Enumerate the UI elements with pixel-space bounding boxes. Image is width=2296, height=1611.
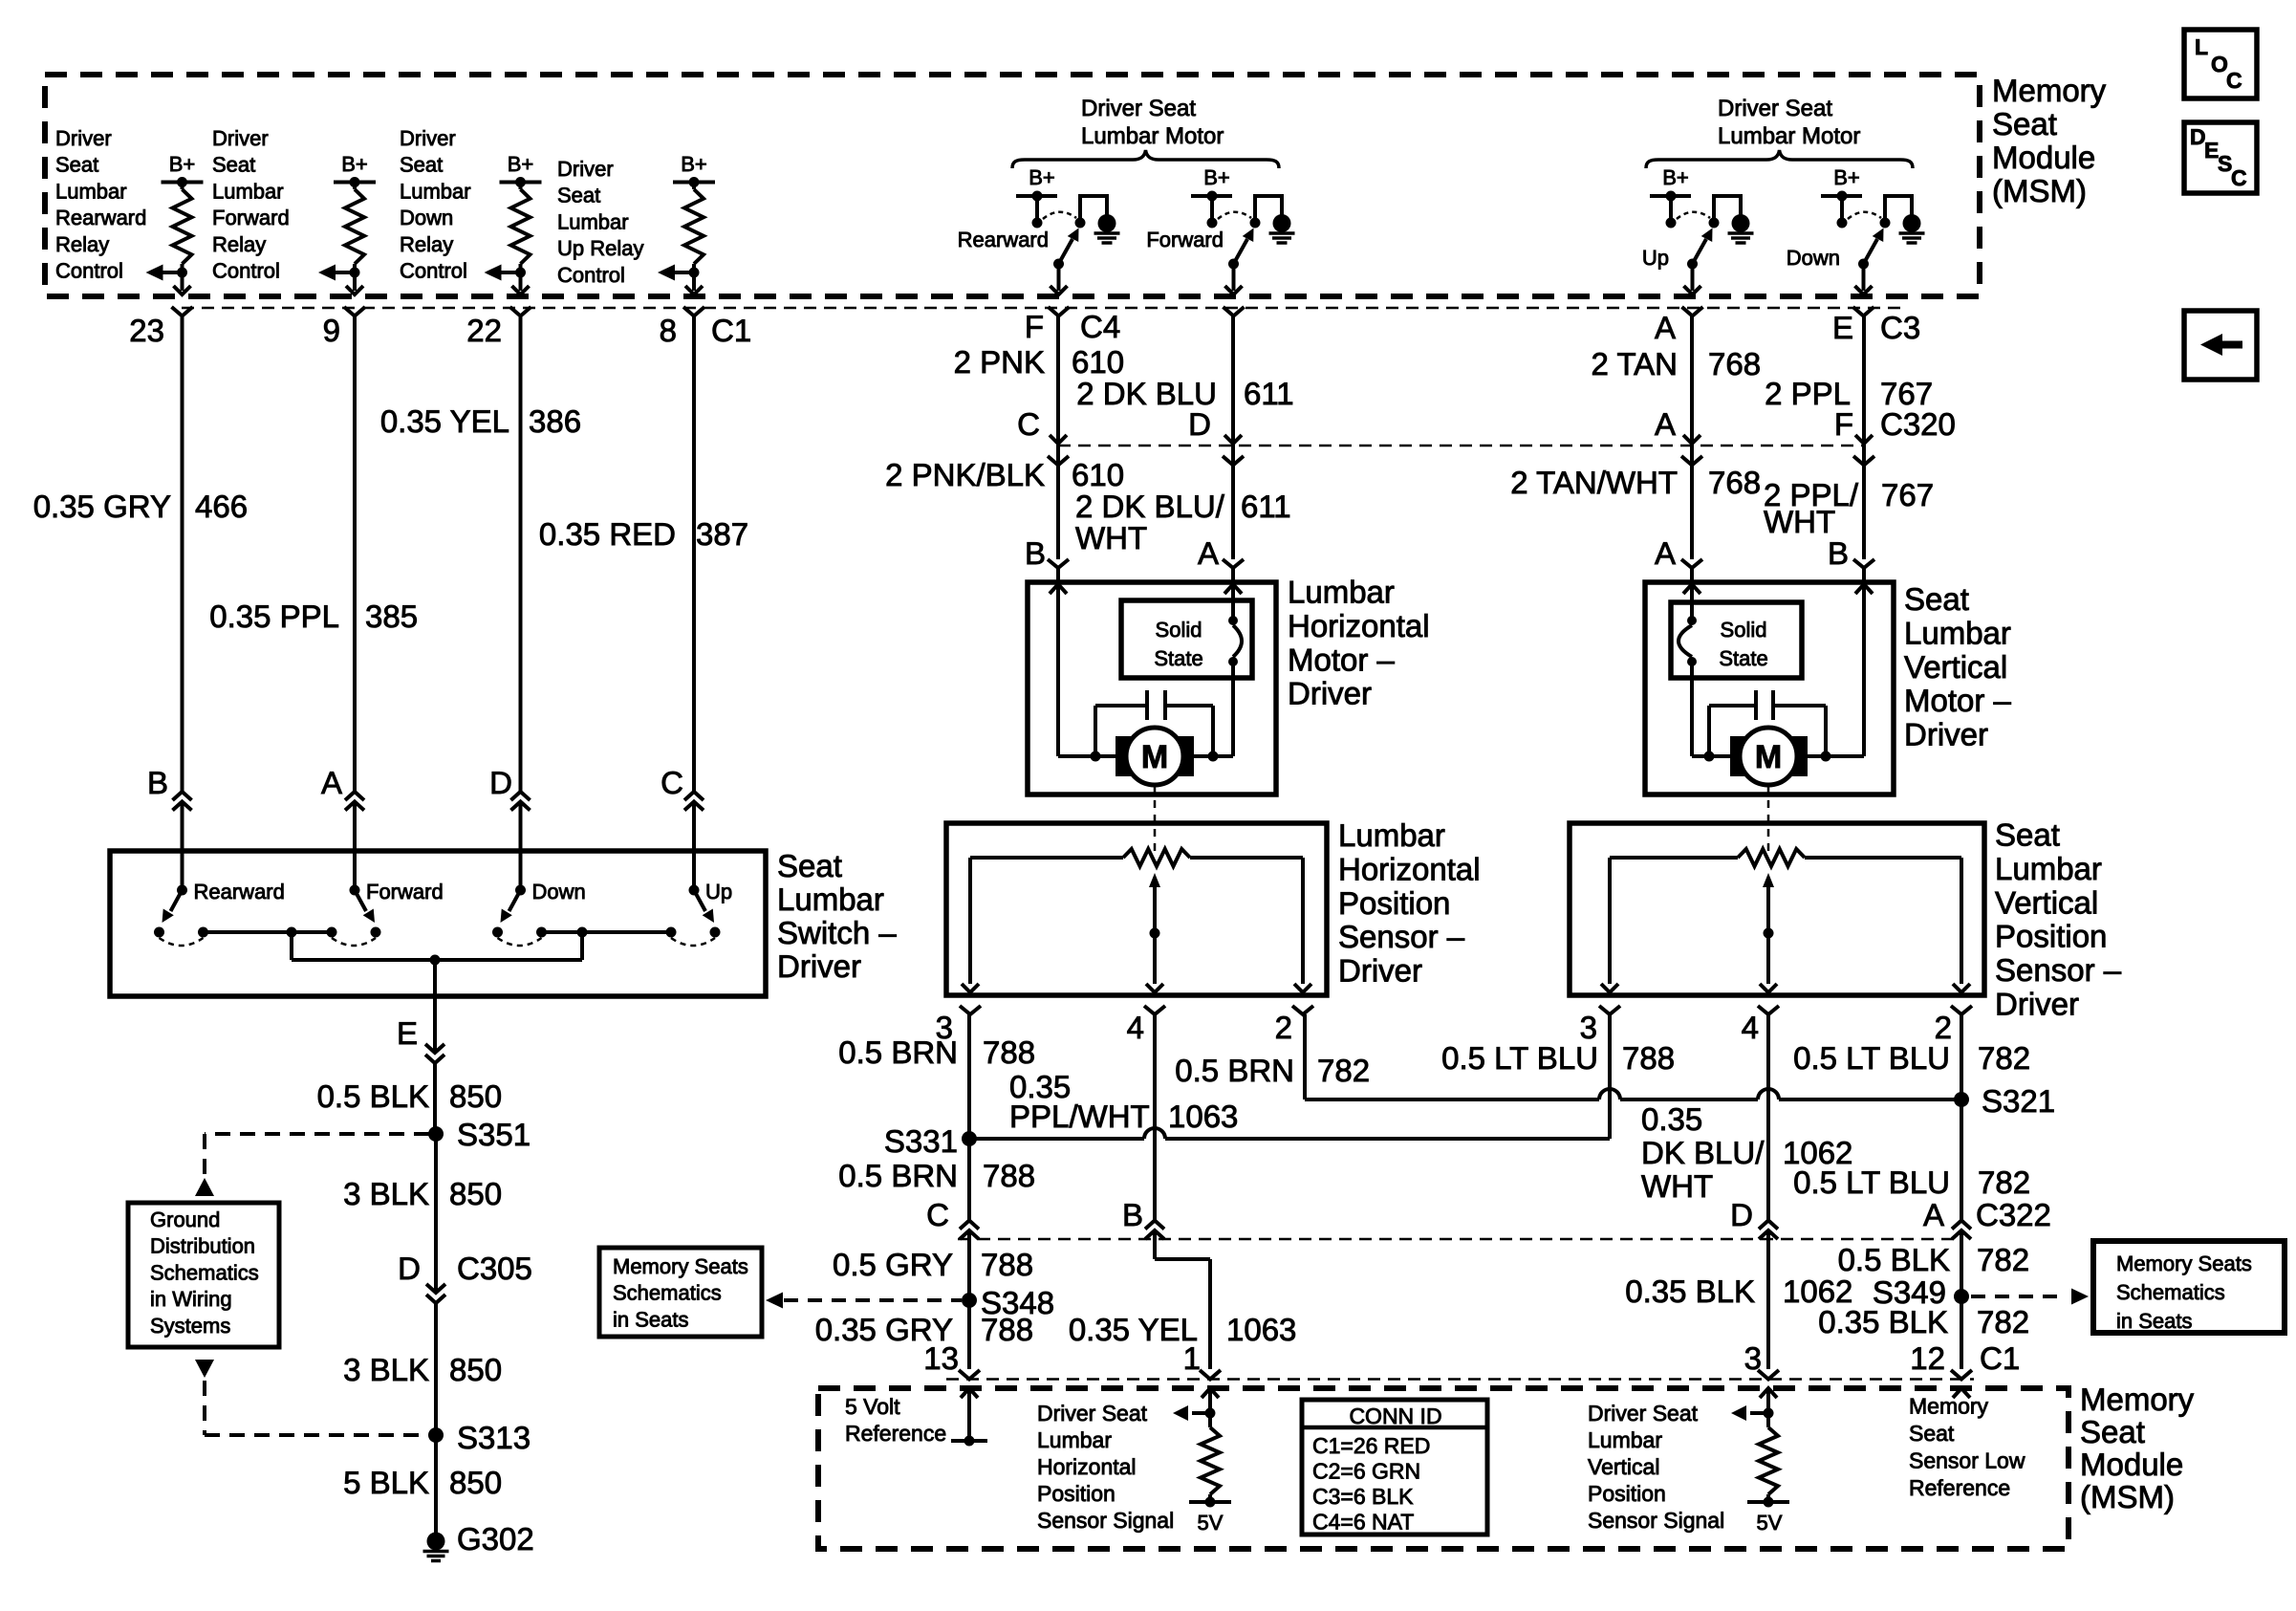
- svg-text:B: B: [147, 765, 168, 800]
- svg-text:Rearward: Rearward: [194, 880, 285, 903]
- svg-text:C2=6 GRN: C2=6 GRN: [1312, 1459, 1420, 1484]
- svg-text:D: D: [489, 765, 512, 800]
- svg-text:Lumbar Motor: Lumbar Motor: [1718, 123, 1860, 149]
- svg-text:(MSM): (MSM): [2080, 1479, 2175, 1514]
- svg-text:788: 788: [1622, 1040, 1675, 1076]
- svg-text:State: State: [1154, 646, 1202, 670]
- svg-text:Position: Position: [1338, 885, 1450, 921]
- svg-text:Seat: Seat: [1904, 581, 1969, 617]
- svg-text:Driver: Driver: [212, 126, 269, 150]
- svg-text:C305: C305: [457, 1251, 532, 1286]
- svg-text:5 BLK: 5 BLK: [343, 1465, 429, 1500]
- svg-text:8: 8: [660, 313, 677, 348]
- svg-text:2: 2: [1275, 1010, 1292, 1045]
- svg-text:C1: C1: [711, 313, 751, 348]
- svg-text:Schematics: Schematics: [613, 1281, 722, 1305]
- svg-text:B+: B+: [1833, 165, 1860, 189]
- svg-text:C4=6 NAT: C4=6 NAT: [1312, 1510, 1414, 1535]
- svg-text:S321: S321: [1982, 1083, 2055, 1119]
- svg-text:Sensor Low: Sensor Low: [1909, 1448, 2025, 1473]
- svg-text:Position: Position: [1995, 919, 2107, 954]
- svg-text:2 TAN/WHT: 2 TAN/WHT: [1510, 465, 1678, 500]
- svg-text:Relay: Relay: [400, 232, 453, 256]
- svg-text:Horizontal: Horizontal: [1338, 851, 1481, 886]
- svg-text:M: M: [1141, 739, 1168, 775]
- svg-text:Lumbar: Lumbar: [1288, 575, 1395, 610]
- svg-text:Forward: Forward: [366, 880, 444, 903]
- svg-text:C: C: [1017, 406, 1040, 442]
- svg-text:850: 850: [449, 1352, 502, 1387]
- svg-text:0.35 RED: 0.35 RED: [539, 516, 676, 552]
- svg-text:0.5 LT BLU: 0.5 LT BLU: [1793, 1165, 1950, 1200]
- svg-text:Relay: Relay: [55, 232, 109, 256]
- svg-text:Down: Down: [400, 206, 453, 229]
- svg-text:F: F: [1025, 309, 1044, 344]
- svg-text:2 PNK: 2 PNK: [954, 344, 1045, 380]
- svg-text:C4: C4: [1080, 309, 1120, 344]
- svg-text:Up Relay: Up Relay: [557, 236, 643, 260]
- svg-text:610: 610: [1072, 344, 1124, 380]
- svg-text:D: D: [398, 1251, 421, 1286]
- svg-text:Seat: Seat: [2080, 1414, 2145, 1449]
- svg-text:C3: C3: [1880, 310, 1920, 345]
- svg-text:0.5 BRN: 0.5 BRN: [838, 1158, 958, 1193]
- svg-text:Sensor –: Sensor –: [1338, 919, 1465, 954]
- svg-text:M: M: [1755, 739, 1782, 775]
- svg-text:Motor –: Motor –: [1288, 642, 1396, 677]
- svg-text:Lumbar: Lumbar: [777, 882, 884, 917]
- svg-text:A: A: [321, 765, 342, 800]
- svg-text:Driver: Driver: [557, 157, 614, 181]
- svg-text:Driver: Driver: [1288, 676, 1372, 711]
- svg-text:C3=6 BLK: C3=6 BLK: [1312, 1484, 1414, 1509]
- svg-text:Driver Seat: Driver Seat: [1718, 96, 1832, 121]
- svg-text:5 Volt: 5 Volt: [845, 1394, 900, 1419]
- svg-text:Seat: Seat: [1992, 106, 2057, 142]
- svg-text:B+: B+: [1203, 165, 1230, 189]
- svg-text:Motor –: Motor –: [1904, 683, 2012, 718]
- svg-text:Lumbar Motor: Lumbar Motor: [1081, 123, 1224, 149]
- svg-text:0.35 PPL: 0.35 PPL: [209, 599, 339, 634]
- svg-text:387: 387: [696, 516, 748, 552]
- svg-text:B+: B+: [1662, 165, 1689, 189]
- svg-text:E: E: [1832, 310, 1853, 345]
- svg-text:0.35 YEL: 0.35 YEL: [1069, 1312, 1198, 1347]
- svg-text:D: D: [1730, 1197, 1753, 1232]
- svg-text:WHT: WHT: [1764, 504, 1835, 539]
- svg-text:Lumbar: Lumbar: [1037, 1427, 1112, 1452]
- svg-text:Lumbar: Lumbar: [55, 179, 127, 203]
- svg-text:Seat: Seat: [55, 153, 98, 177]
- svg-text:788: 788: [983, 1034, 1035, 1070]
- svg-text:Sensor –: Sensor –: [1995, 952, 2122, 988]
- svg-text:C: C: [2231, 165, 2247, 190]
- svg-text:Lumbar: Lumbar: [1338, 817, 1445, 853]
- svg-text:3 BLK: 3 BLK: [343, 1176, 429, 1211]
- svg-text:DK BLU/: DK BLU/: [1641, 1135, 1765, 1170]
- svg-text:Reference: Reference: [845, 1421, 946, 1446]
- svg-text:610: 610: [1072, 457, 1124, 492]
- svg-text:C: C: [926, 1197, 949, 1232]
- svg-text:466: 466: [195, 489, 248, 524]
- svg-text:Up: Up: [705, 880, 732, 903]
- svg-text:788: 788: [981, 1247, 1033, 1282]
- svg-text:Driver Seat: Driver Seat: [1081, 96, 1196, 121]
- svg-text:CONN ID: CONN ID: [1349, 1404, 1441, 1428]
- svg-text:Relay: Relay: [212, 232, 266, 256]
- svg-text:Seat: Seat: [1909, 1421, 1955, 1446]
- svg-text:C: C: [2226, 68, 2242, 93]
- svg-text:Up: Up: [1642, 246, 1669, 270]
- svg-text:S351: S351: [457, 1117, 531, 1152]
- svg-text:Module: Module: [2080, 1447, 2183, 1482]
- svg-text:Memory Seats: Memory Seats: [613, 1254, 748, 1278]
- svg-text:Seat: Seat: [212, 153, 255, 177]
- svg-text:Driver Seat: Driver Seat: [1588, 1401, 1699, 1426]
- svg-text:WHT: WHT: [1075, 520, 1147, 555]
- svg-text:B: B: [1122, 1197, 1143, 1232]
- svg-text:B+: B+: [169, 152, 196, 176]
- svg-text:1063: 1063: [1226, 1312, 1296, 1347]
- svg-text:Seat: Seat: [777, 848, 842, 883]
- svg-text:Seat: Seat: [400, 153, 443, 177]
- svg-text:0.35 BLK: 0.35 BLK: [1625, 1274, 1755, 1309]
- svg-text:2 DK BLU/: 2 DK BLU/: [1075, 489, 1225, 524]
- svg-text:Rearward: Rearward: [958, 228, 1049, 251]
- svg-text:Lumbar: Lumbar: [1588, 1427, 1662, 1452]
- svg-text:0.5 BLK: 0.5 BLK: [317, 1078, 429, 1114]
- svg-text:Horizontal: Horizontal: [1037, 1454, 1137, 1479]
- svg-text:Control: Control: [212, 259, 280, 283]
- svg-text:0.5 GRY: 0.5 GRY: [833, 1247, 953, 1282]
- svg-text:12: 12: [1910, 1340, 1945, 1376]
- svg-text:Control: Control: [400, 259, 467, 283]
- svg-text:0.5 BLK: 0.5 BLK: [1838, 1242, 1950, 1277]
- svg-text:1: 1: [1183, 1340, 1201, 1376]
- svg-text:5V: 5V: [1198, 1511, 1224, 1535]
- svg-text:S313: S313: [457, 1420, 531, 1455]
- svg-text:Lumbar: Lumbar: [400, 179, 471, 203]
- svg-text:611: 611: [1244, 376, 1294, 411]
- svg-text:F: F: [1834, 406, 1853, 442]
- svg-text:D: D: [1188, 406, 1211, 442]
- svg-text:Driver: Driver: [400, 126, 456, 150]
- svg-text:Driver: Driver: [55, 126, 112, 150]
- svg-text:22: 22: [466, 313, 502, 348]
- svg-text:782: 782: [1977, 1242, 2029, 1277]
- svg-text:S331: S331: [884, 1123, 958, 1159]
- svg-text:850: 850: [449, 1078, 502, 1114]
- svg-text:Lumbar: Lumbar: [557, 209, 629, 233]
- svg-text:Horizontal: Horizontal: [1288, 608, 1430, 643]
- svg-text:Forward: Forward: [1146, 228, 1224, 251]
- svg-text:A: A: [1923, 1197, 1944, 1232]
- svg-text:in Seats: in Seats: [2116, 1309, 2193, 1333]
- svg-text:5V: 5V: [1757, 1511, 1783, 1535]
- svg-text:Rearward: Rearward: [55, 206, 146, 229]
- svg-text:Schematics: Schematics: [150, 1260, 259, 1284]
- svg-text:B+: B+: [1029, 165, 1055, 189]
- svg-text:0.35 BLK: 0.35 BLK: [1818, 1304, 1948, 1339]
- svg-text:C322: C322: [1976, 1197, 2051, 1232]
- svg-text:Position: Position: [1588, 1481, 1666, 1506]
- svg-text:Systems: Systems: [150, 1314, 230, 1338]
- svg-text:1063: 1063: [1168, 1099, 1238, 1134]
- svg-text:(MSM): (MSM): [1992, 173, 2087, 208]
- svg-text:A: A: [1655, 406, 1676, 442]
- svg-text:Position: Position: [1037, 1481, 1116, 1506]
- svg-text:4: 4: [1742, 1010, 1759, 1045]
- svg-text:Lumbar: Lumbar: [212, 179, 284, 203]
- svg-text:PPL/WHT: PPL/WHT: [1009, 1099, 1150, 1134]
- svg-text:Memory: Memory: [1992, 73, 2107, 108]
- svg-text:Sensor Signal: Sensor Signal: [1588, 1508, 1724, 1533]
- svg-text:Control: Control: [55, 259, 123, 283]
- svg-text:767: 767: [1881, 477, 1934, 512]
- svg-text:L: L: [2195, 34, 2208, 59]
- svg-text:782: 782: [1317, 1053, 1370, 1088]
- svg-text:850: 850: [449, 1465, 502, 1500]
- svg-text:385: 385: [365, 599, 418, 634]
- svg-text:3 BLK: 3 BLK: [343, 1352, 429, 1387]
- svg-text:in Wiring: in Wiring: [150, 1287, 232, 1311]
- svg-text:Schematics: Schematics: [2116, 1280, 2225, 1304]
- svg-text:C320: C320: [1880, 406, 1956, 442]
- svg-text:Sensor Signal: Sensor Signal: [1037, 1508, 1174, 1533]
- svg-text:13: 13: [923, 1340, 959, 1376]
- svg-text:A: A: [1655, 310, 1676, 345]
- svg-text:788: 788: [983, 1158, 1035, 1193]
- svg-text:782: 782: [1977, 1304, 2029, 1339]
- svg-text:Seat: Seat: [1995, 817, 2060, 853]
- svg-text:Seat: Seat: [557, 184, 600, 207]
- svg-text:Driver: Driver: [777, 948, 861, 984]
- svg-text:Lumbar: Lumbar: [1995, 851, 2102, 886]
- svg-text:G302: G302: [457, 1521, 534, 1557]
- svg-text:9: 9: [323, 313, 340, 348]
- svg-text:Memory: Memory: [1909, 1394, 1989, 1419]
- svg-text:Distribution: Distribution: [150, 1234, 255, 1258]
- svg-text:Down: Down: [532, 880, 586, 903]
- svg-text:768: 768: [1708, 346, 1761, 381]
- svg-text:Solid: Solid: [1156, 618, 1202, 642]
- svg-text:Reference: Reference: [1909, 1475, 2010, 1500]
- svg-text:Driver: Driver: [1338, 953, 1422, 989]
- svg-text:768: 768: [1708, 465, 1761, 500]
- svg-text:2 PNK/BLK: 2 PNK/BLK: [885, 457, 1045, 492]
- svg-text:E: E: [397, 1015, 418, 1051]
- svg-text:782: 782: [1978, 1040, 2030, 1076]
- svg-text:Driver: Driver: [1995, 987, 2079, 1022]
- svg-text:A: A: [1198, 535, 1219, 571]
- svg-text:0.5 LT BLU: 0.5 LT BLU: [1793, 1040, 1950, 1076]
- svg-text:Memory: Memory: [2080, 1382, 2195, 1417]
- svg-text:A: A: [1655, 535, 1676, 571]
- svg-text:Module: Module: [1992, 140, 2095, 175]
- svg-text:B+: B+: [508, 152, 534, 176]
- svg-text:782: 782: [1978, 1165, 2030, 1200]
- svg-text:B+: B+: [341, 152, 368, 176]
- svg-text:B+: B+: [681, 152, 707, 176]
- svg-text:0.35: 0.35: [1641, 1101, 1702, 1137]
- svg-text:Solid: Solid: [1721, 618, 1767, 642]
- svg-text:C: C: [661, 765, 683, 800]
- svg-text:Forward: Forward: [212, 206, 290, 229]
- svg-text:State: State: [1719, 646, 1767, 670]
- svg-text:0.35 YEL: 0.35 YEL: [380, 403, 509, 439]
- svg-text:23: 23: [129, 313, 164, 348]
- svg-text:Vertical: Vertical: [1904, 649, 2007, 685]
- svg-text:in Seats: in Seats: [613, 1307, 689, 1331]
- svg-text:B: B: [1025, 535, 1046, 571]
- svg-text:2 TAN: 2 TAN: [1592, 346, 1678, 381]
- svg-text:0.5 BRN: 0.5 BRN: [838, 1034, 958, 1070]
- svg-text:Driver: Driver: [1904, 717, 1988, 752]
- svg-text:WHT: WHT: [1641, 1168, 1713, 1204]
- svg-text:0.5 LT BLU: 0.5 LT BLU: [1441, 1040, 1598, 1076]
- svg-text:0.5 BRN: 0.5 BRN: [1175, 1053, 1294, 1088]
- svg-text:Vertical: Vertical: [1588, 1454, 1659, 1479]
- svg-text:Memory Seats: Memory Seats: [2116, 1252, 2252, 1275]
- svg-text:611: 611: [1241, 489, 1291, 524]
- svg-text:Vertical: Vertical: [1995, 884, 2098, 920]
- svg-text:B: B: [1828, 535, 1849, 571]
- svg-text:4: 4: [1127, 1010, 1144, 1045]
- svg-text:Switch –: Switch –: [777, 915, 897, 950]
- svg-text:Control: Control: [557, 263, 625, 287]
- svg-text:Lumbar: Lumbar: [1904, 615, 2011, 650]
- svg-text:Down: Down: [1787, 246, 1840, 270]
- svg-text:Driver Seat: Driver Seat: [1037, 1401, 1148, 1426]
- svg-text:386: 386: [529, 403, 581, 439]
- svg-text:C1=26 RED: C1=26 RED: [1312, 1433, 1430, 1458]
- svg-text:C1: C1: [1980, 1340, 2020, 1376]
- svg-text:Ground: Ground: [150, 1208, 220, 1231]
- svg-text:788: 788: [981, 1312, 1033, 1347]
- svg-text:0.35 GRY: 0.35 GRY: [33, 489, 171, 524]
- svg-text:850: 850: [449, 1176, 502, 1211]
